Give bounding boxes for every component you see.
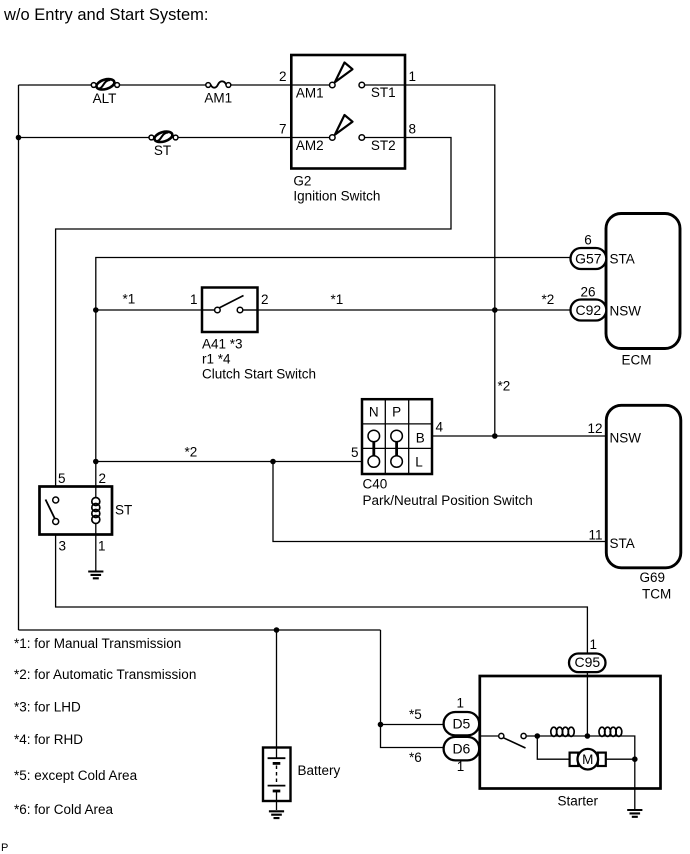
svg-text:G69: G69	[640, 570, 666, 585]
svg-text:ST1: ST1	[371, 85, 396, 100]
svg-text:1: 1	[590, 637, 598, 652]
svg-text:A41 *3: A41 *3	[202, 337, 243, 352]
TCM block	[606, 405, 681, 568]
wire ignition pin1 to NSW node (right vertical x494.8)	[405, 85, 495, 436]
svg-text:AM1: AM1	[204, 91, 232, 106]
svg-text:*1: for Manual Transmission: *1: for Manual Transmission	[14, 636, 181, 651]
wire G2 AM2 row internal	[291, 137, 405, 139]
wire STA net: G57 row y257.5 and vertical x95.8 to relay coil pin2	[96, 258, 571, 498]
svg-text:D6: D6	[452, 741, 470, 757]
wire A41 internal	[202, 309, 258, 311]
svg-text:Battery: Battery	[298, 763, 341, 778]
svg-text:Clutch Start Switch: Clutch Start Switch	[202, 367, 316, 382]
starter switch contact 1	[499, 733, 504, 738]
svg-text:*3: for LHD: *3: for LHD	[14, 700, 81, 715]
svg-text:ST: ST	[115, 503, 132, 518]
node NSW row / right vertical	[492, 433, 498, 439]
svg-text:N: N	[369, 405, 379, 420]
node junction left bus / ST row	[16, 135, 22, 141]
wire starter entry	[480, 735, 499, 737]
svg-text:TCM: TCM	[642, 587, 671, 602]
wire battery drop	[276, 630, 278, 758]
node STA / clutch row	[93, 307, 99, 313]
node starter ground	[632, 756, 638, 762]
wire relay pin3 to starter C95	[56, 535, 588, 654]
svg-text:*1: *1	[331, 292, 344, 307]
svg-text:*6: for Cold Area: *6: for Cold Area	[14, 802, 114, 817]
svg-text:P: P	[1, 842, 8, 854]
contact A41 left	[215, 307, 221, 313]
node *2 row / TCM STA branch	[270, 459, 276, 465]
blade A41	[219, 296, 244, 309]
ground relay	[88, 572, 103, 579]
svg-text:w/o Entry and Start System:: w/o Entry and Start System:	[3, 6, 209, 24]
svg-text:G57: G57	[575, 251, 602, 267]
svg-text:1: 1	[190, 292, 198, 307]
wire bottom bus y630	[19, 629, 381, 631]
svg-text:26: 26	[580, 285, 595, 300]
svg-text:7: 7	[279, 122, 287, 137]
contact AM2	[330, 135, 336, 141]
svg-text:AM2: AM2	[296, 138, 324, 153]
node battery tap	[274, 627, 280, 633]
svg-text:STA: STA	[610, 536, 635, 551]
coil pull-in winding	[598, 727, 622, 736]
wire to D6 *6	[381, 725, 444, 748]
svg-text:ECM: ECM	[622, 353, 652, 368]
svg-text:r1 *4: r1 *4	[202, 352, 231, 367]
node C95 / coils	[585, 733, 591, 739]
wire left bus vertical x18.5	[18, 85, 20, 630]
fusible link ALT	[91, 77, 119, 106]
svg-text:*2: for Automatic Transmission: *2: for Automatic Transmission	[14, 667, 196, 682]
svg-text:4: 4	[436, 420, 444, 435]
ECM block	[606, 214, 680, 349]
wire ignition pin8 to ST relay pin5	[56, 138, 451, 487]
relay blade	[46, 500, 56, 520]
park/neutral position switch C40 grid	[362, 399, 432, 474]
wire contact2 to node	[526, 735, 550, 737]
svg-text:*2: *2	[498, 379, 511, 394]
wire relay pin1 to ground	[95, 535, 97, 571]
wire node to motor	[537, 736, 569, 759]
battery box	[263, 748, 291, 802]
wire battery feed ALT row y85	[19, 84, 292, 86]
svg-text:C95: C95	[574, 654, 600, 670]
svg-text:Ignition Switch: Ignition Switch	[293, 189, 380, 204]
C40 contact circles	[368, 430, 402, 467]
coil hold-in winding	[550, 727, 576, 736]
svg-text:STA: STA	[610, 252, 635, 267]
wire coil to right drop	[622, 736, 635, 759]
connector D5	[444, 712, 480, 735]
svg-text:5: 5	[58, 471, 66, 486]
svg-text:*4: for RHD: *4: for RHD	[14, 732, 83, 747]
C40 contact bar P column	[395, 436, 398, 462]
wire clutch row left *1	[96, 309, 215, 311]
svg-text:1: 1	[98, 539, 106, 554]
wire starter feed drop x380.5	[380, 630, 382, 725]
svg-text:AM1: AM1	[296, 86, 324, 101]
contact ST2	[359, 135, 365, 141]
svg-text:*5: except Cold Area: *5: except Cold Area	[14, 768, 138, 783]
wire C40 pin4 to TCM pin12 NSW row y436	[432, 435, 607, 437]
wire motor to right node	[606, 758, 635, 760]
starter blade	[504, 738, 526, 748]
connector G57	[571, 248, 607, 269]
svg-text:C40: C40	[363, 477, 388, 492]
svg-text:6: 6	[584, 233, 592, 248]
svg-text:*1: *1	[123, 292, 136, 307]
wire starter ground drop	[634, 759, 636, 809]
fuse AM1	[204, 81, 232, 105]
svg-text:1: 1	[409, 69, 417, 84]
contact A41 right	[237, 307, 243, 313]
starter box	[480, 676, 661, 789]
ignition switch G2 box	[291, 55, 405, 169]
svg-text:ALT: ALT	[93, 91, 117, 106]
wire to D5 *5	[381, 724, 444, 726]
wire TCM STA branch to pin11	[273, 462, 607, 542]
wire clutch row right *1 to C92	[243, 309, 571, 311]
node clutch row / right vertical	[492, 307, 498, 313]
svg-text:*2: *2	[185, 445, 198, 460]
svg-text:1: 1	[457, 696, 465, 711]
wire G2 AM1 row internal	[291, 84, 405, 86]
ground starter	[627, 810, 642, 817]
node hold-in	[535, 733, 541, 739]
motor M	[570, 749, 606, 770]
svg-text:NSW: NSW	[610, 304, 642, 319]
wire ST row y137.5	[19, 137, 292, 139]
svg-text:B: B	[416, 431, 425, 446]
svg-text:1: 1	[457, 759, 465, 774]
svg-text:P: P	[392, 405, 401, 420]
contact AM1	[330, 82, 336, 88]
contact ST1	[359, 82, 365, 88]
svg-text:Starter: Starter	[558, 794, 599, 809]
relay switch contacts	[53, 497, 59, 503]
svg-text:M: M	[582, 752, 593, 767]
ground battery	[269, 811, 284, 818]
battery plates	[268, 758, 286, 810]
svg-text:D5: D5	[452, 716, 470, 732]
starter switch contact 2	[521, 733, 526, 738]
svg-text:L: L	[415, 455, 423, 470]
svg-text:2: 2	[261, 292, 269, 307]
svg-text:12: 12	[587, 421, 602, 436]
fusible link ST	[149, 130, 178, 158]
svg-text:2: 2	[99, 471, 107, 486]
svg-text:ST: ST	[154, 143, 171, 158]
connector D6	[444, 737, 480, 761]
svg-text:Park/Neutral Position Switch: Park/Neutral Position Switch	[363, 493, 533, 508]
svg-text:G2: G2	[293, 174, 311, 189]
svg-text:11: 11	[588, 528, 602, 543]
svg-text:3: 3	[59, 539, 67, 554]
wire *2 row y461.5 to C40 pin5	[96, 461, 362, 463]
connector C95	[569, 654, 606, 673]
svg-text:ST2: ST2	[371, 138, 396, 153]
connector C92	[571, 300, 607, 321]
wire C95 down to coil node	[586, 672, 588, 736]
svg-text:*5: *5	[409, 707, 422, 722]
svg-text:*6: *6	[409, 750, 422, 765]
C40 contact bar N column	[372, 436, 375, 462]
ST relay box	[40, 487, 113, 535]
key wedge AM2-ST2	[335, 115, 353, 135]
node STA / *2 row	[93, 459, 99, 465]
svg-text:*2: *2	[542, 292, 555, 307]
relay coil	[92, 498, 100, 535]
clutch start switch A41 box	[202, 288, 258, 333]
node starter feed / D5	[378, 722, 384, 728]
key wedge AM1-ST1	[335, 63, 353, 83]
svg-text:2: 2	[279, 69, 287, 84]
svg-text:C92: C92	[575, 302, 601, 318]
svg-text:NSW: NSW	[610, 431, 642, 446]
svg-text:5: 5	[351, 445, 359, 460]
wire between coils	[576, 735, 598, 737]
svg-text:8: 8	[409, 122, 417, 137]
